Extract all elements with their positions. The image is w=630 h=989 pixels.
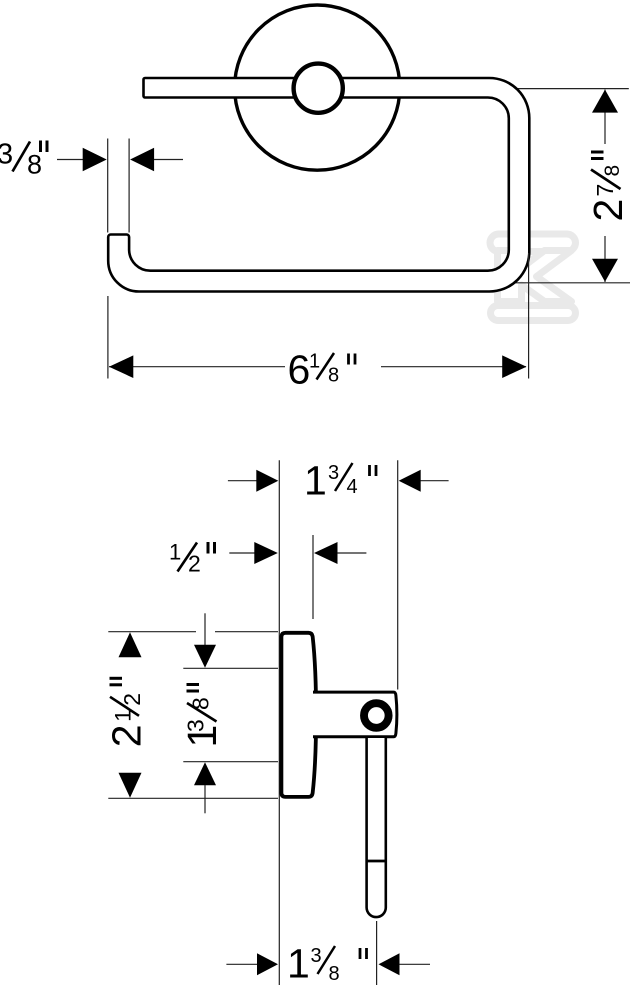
- svg-text:8: 8: [601, 165, 624, 177]
- svg-text:3: 3: [311, 945, 322, 967]
- mounting plate circle (front view): [235, 5, 400, 170]
- dim 6 1/8 right arrowhead: [502, 355, 526, 378]
- dim bottom 1 3/8 left arrowhead: [257, 953, 278, 975]
- dim 3/8 left arrowhead: [83, 148, 107, 171]
- dim 1/2 right extension line: [312, 535, 314, 619]
- bar centerline extension: [376, 921, 378, 985]
- svg-text:2: 2: [585, 199, 630, 222]
- watermark K logo bottom bar: [491, 306, 576, 321]
- svg-text:2: 2: [104, 724, 150, 747]
- svg-text:2: 2: [188, 551, 201, 577]
- dim 1 3/4 right leader: [421, 480, 449, 482]
- dim 1/2 left arrowhead: [254, 542, 277, 564]
- dim 2 7/8 top extension line: [511, 88, 629, 90]
- svg-text:8: 8: [27, 150, 42, 180]
- dim bottom 1 3/8 text: [287, 941, 367, 987]
- dim 6 1/8 text: [288, 347, 356, 393]
- svg-text:3: 3: [0, 138, 13, 170]
- svg-text:2: 2: [119, 693, 145, 706]
- dim 1 3/4 text: [304, 458, 376, 504]
- dim 1 3/4 left arrowhead: [256, 470, 278, 492]
- dim 2 7/8 line upper segment: [604, 90, 606, 144]
- dim bottom 1 3/8 right leader: [399, 963, 430, 965]
- arm bracket fill (side view): [313, 692, 397, 737]
- hub circle (front view): [294, 64, 343, 113]
- dim 1/2 left leader: [229, 552, 256, 554]
- dim 1/2 right leader: [337, 552, 366, 554]
- watermark K logo top bar: [490, 234, 576, 252]
- dim 2 1/2 top arrowhead: [119, 632, 142, 657]
- dim 1 3/8 bottom stem: [204, 785, 206, 813]
- svg-text:8: 8: [188, 697, 214, 710]
- dim 6 1/8 left arrowhead: [109, 355, 133, 378]
- dim 1/2 text: [169, 540, 215, 577]
- dim 2 7/8 top arrowhead: [592, 90, 618, 113]
- dim 2 7/8 bottom extension line: [505, 282, 630, 284]
- side view wall extension line: [278, 460, 280, 985]
- dim 2 1/2 bottom arrowhead: [119, 773, 142, 798]
- dim 1 3/8 bottom extension line: [183, 761, 278, 763]
- dim 2 1/2 text (rotated): [104, 678, 150, 747]
- arm bracket outline (side view): [313, 692, 397, 737]
- svg-text:4: 4: [347, 476, 358, 498]
- dim 1 3/8 top extension line: [183, 667, 278, 669]
- hanging bar (side view): [367, 738, 386, 917]
- holder wire outline (front view): [108, 78, 529, 292]
- dim 1 3/8 top arrowhead: [194, 645, 216, 668]
- dim 6 1/8 line right segment: [381, 366, 526, 368]
- svg-text:3: 3: [328, 462, 339, 484]
- dim 3/8 left extension line: [107, 139, 109, 233]
- watermark K logo middle K shape: [498, 251, 572, 302]
- hanging bar divider line: [367, 860, 386, 863]
- svg-text:6: 6: [288, 347, 311, 393]
- dim 6 1/8 line left segment: [109, 366, 285, 368]
- svg-text:3: 3: [183, 719, 209, 732]
- svg-text:8: 8: [328, 365, 339, 387]
- dim 3/8 text: [0, 138, 47, 179]
- dim 2 1/2 top extension line right part: [215, 631, 278, 633]
- svg-text:1: 1: [169, 540, 181, 565]
- dim 1 3/4 right arrowhead: [399, 470, 421, 492]
- dim 2 1/2 bottom extension line: [108, 797, 278, 799]
- svg-text:1: 1: [304, 458, 327, 504]
- dim 2 7/8 text (rotated): [585, 152, 630, 222]
- dim 2 1/2 top extension line left part: [108, 631, 196, 633]
- wall plate (side view): [281, 633, 316, 797]
- svg-text:8: 8: [329, 963, 340, 985]
- dim 3/8 right leader: [154, 159, 183, 161]
- dim 3/8 left leader: [57, 159, 85, 161]
- dim 1 3/8 bottom arrowhead: [194, 762, 216, 785]
- dim 1 3/4 right extension line: [397, 460, 399, 689]
- dim bottom 1 3/8 right arrowhead: [379, 953, 400, 975]
- dim 3/8 right arrowhead: [130, 148, 154, 171]
- dim 6 1/8 left extension line: [107, 296, 109, 379]
- dim 3/8 right extension line: [128, 139, 130, 233]
- svg-text:1: 1: [287, 941, 310, 987]
- dim 1 3/8 text (rotated): [179, 685, 225, 748]
- dim 6 1/8 right extension line: [528, 253, 530, 379]
- dim 1 3/4 left leader: [228, 480, 258, 482]
- dim 2 7/8 bottom arrowhead: [592, 259, 618, 282]
- dim 2 7/8 line lower segment: [604, 236, 606, 282]
- dim 1 3/8 top stem: [204, 613, 206, 645]
- svg-text:1: 1: [309, 351, 320, 373]
- dim bottom 1 3/8 left leader: [226, 963, 259, 965]
- pivot ring (side view): [364, 703, 389, 728]
- dim 1/2 right arrowhead: [314, 542, 338, 564]
